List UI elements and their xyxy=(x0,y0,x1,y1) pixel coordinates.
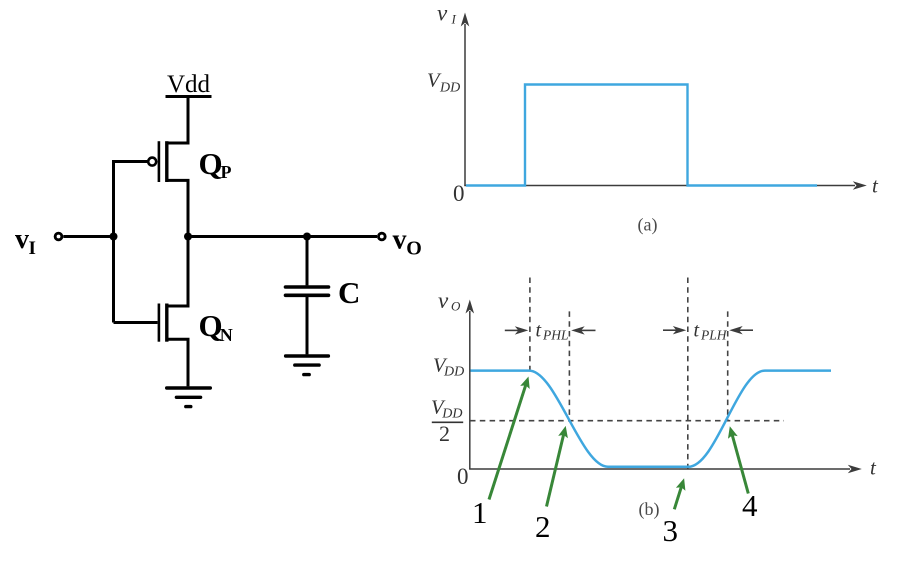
label C xyxy=(338,275,360,310)
svg-text:(a): (a) xyxy=(638,215,658,236)
transistor QP gate bubble xyxy=(148,158,156,166)
graph b: label VDD/2 numerator xyxy=(431,397,463,422)
transistor QP gate bar xyxy=(158,141,161,182)
terminal vI open circle xyxy=(55,233,62,240)
graph b: y-axis arrowhead xyxy=(466,300,475,314)
transistor QP drain stub xyxy=(167,180,188,236)
caption (b) xyxy=(639,499,660,520)
graph b: x-axis arrowhead xyxy=(848,465,862,474)
svg-text:O: O xyxy=(451,299,461,314)
wire node to capacitor xyxy=(306,237,309,286)
annotation label 3 xyxy=(663,513,679,548)
wire Vdd to QP source xyxy=(167,97,188,144)
transistor QP channel bar xyxy=(165,141,168,182)
ground QN xyxy=(167,388,211,407)
svg-text:1: 1 xyxy=(472,495,488,530)
svg-text:0: 0 xyxy=(457,464,469,489)
power Vdd rail bar xyxy=(166,95,212,98)
node capacitor junction dot xyxy=(303,233,311,241)
wire vI to gate node xyxy=(63,235,113,238)
graph b: label vO xyxy=(438,288,461,314)
svg-text:O: O xyxy=(406,237,422,259)
label vO xyxy=(393,224,422,259)
graph b: tPHL right dimension arrow xyxy=(571,326,595,334)
svg-text:PLH: PLH xyxy=(700,328,728,343)
capacitor C bottom plate xyxy=(286,293,329,297)
graph a: label vI xyxy=(437,1,457,27)
svg-text:I: I xyxy=(451,12,457,27)
node gate junction dot xyxy=(110,233,118,241)
svg-text:DD: DD xyxy=(439,81,460,96)
graph b: tPHL left dimension arrow xyxy=(505,326,529,334)
svg-text:v: v xyxy=(438,288,449,313)
svg-text:0: 0 xyxy=(453,181,465,206)
annotation label 2 xyxy=(535,509,551,544)
label QN xyxy=(199,308,233,345)
terminal vO open circle xyxy=(378,233,385,240)
graph a: input pulse waveform xyxy=(466,85,817,186)
label QP xyxy=(199,146,232,182)
wire QN gate xyxy=(114,321,158,324)
svg-text:v: v xyxy=(437,1,448,26)
svg-text:N: N xyxy=(220,325,233,345)
svg-text:Q: Q xyxy=(199,146,223,181)
svg-text:t: t xyxy=(536,319,542,341)
annotation arrow 4 xyxy=(728,426,748,493)
graph a: label t xyxy=(872,174,879,198)
graph b: label t xyxy=(870,456,877,480)
graph b: tPLH left dimension arrow xyxy=(663,326,686,334)
transistor QN source stub xyxy=(167,339,188,386)
wire capacitor to ground xyxy=(306,297,309,355)
graph a: y-axis arrowhead xyxy=(461,13,470,27)
graph a: x-axis arrowhead xyxy=(853,181,867,190)
annotation arrow 3 xyxy=(674,478,685,509)
wire input branch vertical xyxy=(112,160,115,323)
graph b: dashed vertical line 1 xyxy=(529,278,531,370)
transistor QN channel bar xyxy=(165,304,168,342)
graph b: dashed vertical line 3 xyxy=(687,278,689,469)
wire output node xyxy=(188,235,377,238)
graph b: label tPHL xyxy=(536,319,569,342)
svg-text:I: I xyxy=(29,238,36,259)
svg-text:DD: DD xyxy=(441,406,462,421)
graph b: fraction bar xyxy=(432,421,463,423)
graph b: dashed vertical line 2 xyxy=(568,311,570,421)
caption (a) xyxy=(638,215,658,236)
transistor QN drain stub xyxy=(167,237,188,307)
graph a: label VDD xyxy=(427,70,460,96)
annotation label 4 xyxy=(742,488,758,523)
svg-text:Vdd: Vdd xyxy=(167,71,211,98)
svg-text:4: 4 xyxy=(742,488,758,523)
annotation arrow 1 xyxy=(489,377,530,500)
graph b: output waveform xyxy=(471,371,832,467)
graph b: label VDD/2 denominator xyxy=(439,421,450,446)
power Vdd label xyxy=(167,71,211,98)
graph b: dashed VDD/2 horizontal line xyxy=(470,420,784,422)
svg-text:P: P xyxy=(221,162,232,182)
svg-text:t: t xyxy=(694,319,700,341)
svg-text:PHL: PHL xyxy=(542,328,569,343)
svg-text:2: 2 xyxy=(439,421,450,446)
capacitor C top plate xyxy=(286,285,329,289)
graph b: tPLH right dimension arrow xyxy=(729,326,753,334)
node drain junction dot xyxy=(184,233,192,241)
graph b: label tPLH xyxy=(694,319,728,342)
graph a: y-axis xyxy=(464,24,466,186)
svg-text:C: C xyxy=(338,275,360,310)
graph b: dashed vertical line 4 xyxy=(727,311,729,421)
label vI xyxy=(15,224,36,259)
annotation label 1 xyxy=(472,495,488,530)
svg-text:3: 3 xyxy=(663,513,679,548)
svg-text:2: 2 xyxy=(535,509,551,544)
svg-text:(b): (b) xyxy=(639,499,660,520)
transistor QN gate bar xyxy=(158,304,161,342)
graph b: y-axis xyxy=(469,311,471,469)
wire QP gate xyxy=(114,160,148,163)
graph a: label 0 xyxy=(453,181,465,206)
graph a: x-axis xyxy=(464,185,855,187)
annotation arrow 2 xyxy=(547,426,568,507)
ground capacitor xyxy=(286,356,329,375)
graph b: x-axis xyxy=(469,468,850,470)
svg-text:DD: DD xyxy=(443,365,464,380)
graph b: label VDD xyxy=(433,354,464,379)
svg-text:v: v xyxy=(15,224,29,255)
svg-text:v: v xyxy=(393,224,407,255)
graph b: label 0 xyxy=(457,464,469,489)
